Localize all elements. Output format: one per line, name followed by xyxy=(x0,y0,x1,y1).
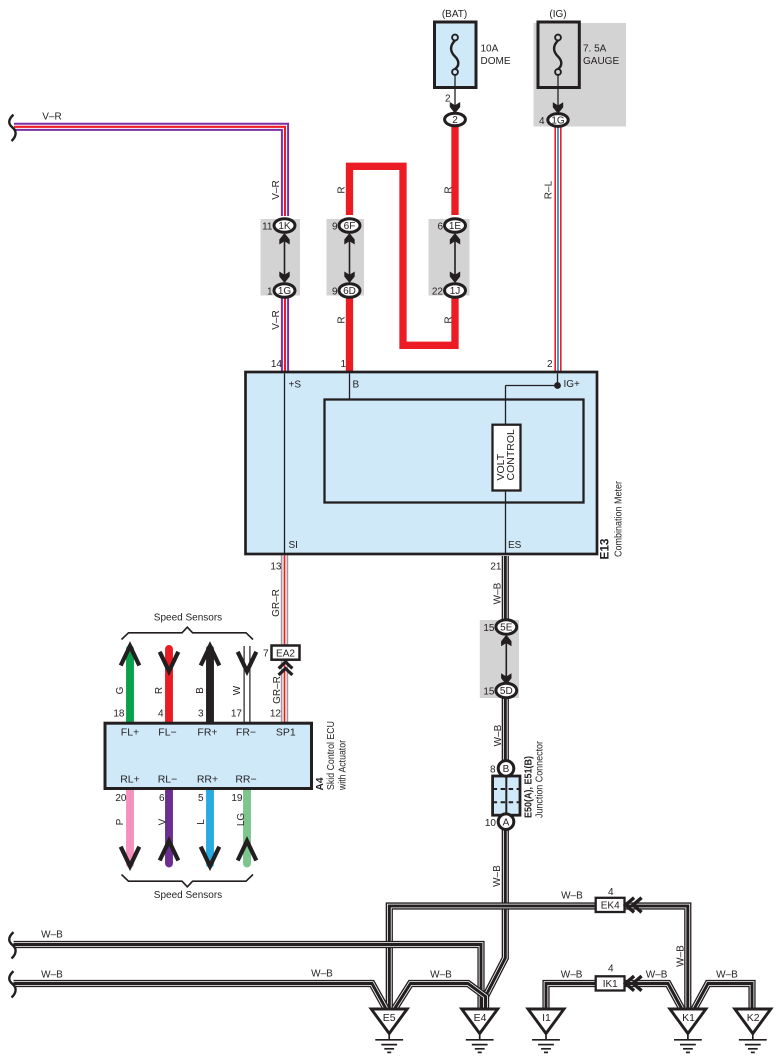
svg-text:4: 4 xyxy=(539,116,545,127)
svg-text:1J: 1J xyxy=(450,286,461,297)
svg-text:11: 11 xyxy=(262,222,273,233)
svg-text:17: 17 xyxy=(231,709,243,720)
svg-text:W: W xyxy=(232,685,243,695)
svg-text:E13: E13 xyxy=(600,539,612,560)
svg-text:18: 18 xyxy=(113,709,125,720)
svg-text:3: 3 xyxy=(198,709,204,720)
svg-text:SI: SI xyxy=(289,540,298,551)
svg-text:GR–R: GR–R xyxy=(272,676,283,704)
svg-text:1G: 1G xyxy=(278,286,292,297)
svg-text:R: R xyxy=(444,186,455,193)
svg-text:W–B: W–B xyxy=(561,969,583,980)
svg-text:13: 13 xyxy=(270,562,282,573)
svg-text:W–B: W–B xyxy=(311,969,333,980)
svg-text:Speed Sensors: Speed Sensors xyxy=(154,890,222,901)
svg-text:K2: K2 xyxy=(747,1012,760,1024)
svg-text:R: R xyxy=(337,316,348,323)
svg-text:W–B: W–B xyxy=(41,969,63,980)
svg-text:L: L xyxy=(196,819,207,825)
svg-text:4: 4 xyxy=(158,709,164,720)
svg-text:FR+: FR+ xyxy=(197,727,217,739)
svg-text:R: R xyxy=(154,687,165,694)
svg-text:W–B: W–B xyxy=(676,945,687,967)
svg-text:W–B: W–B xyxy=(716,969,738,980)
svg-text:E5: E5 xyxy=(383,1012,396,1024)
svg-text:Speed Sensors: Speed Sensors xyxy=(154,613,222,624)
svg-text:10A: 10A xyxy=(481,44,499,55)
svg-text:5: 5 xyxy=(198,793,204,804)
svg-text:P: P xyxy=(115,818,126,825)
svg-text:+S: +S xyxy=(289,380,302,391)
svg-text:9: 9 xyxy=(332,287,338,298)
svg-text:IG+: IG+ xyxy=(564,379,581,390)
svg-text:2: 2 xyxy=(452,115,458,126)
svg-text:V–R: V–R xyxy=(271,310,282,329)
svg-text:Junction Connector: Junction Connector xyxy=(535,740,546,818)
svg-text:SP1: SP1 xyxy=(276,727,296,739)
svg-text:7: 7 xyxy=(263,649,269,660)
svg-text:1: 1 xyxy=(340,359,346,370)
svg-text:7. 5A: 7. 5A xyxy=(583,44,607,55)
svg-text:(IG): (IG) xyxy=(549,9,566,20)
svg-text:R–L: R–L xyxy=(544,180,555,199)
svg-text:V–R: V–R xyxy=(271,180,282,199)
svg-text:DOME: DOME xyxy=(481,56,511,67)
svg-text:(BAT): (BAT) xyxy=(442,9,467,20)
svg-text:EK4: EK4 xyxy=(601,901,620,912)
svg-text:R: R xyxy=(444,316,455,323)
svg-text:V–R: V–R xyxy=(42,112,61,123)
svg-text:FL+: FL+ xyxy=(121,727,139,739)
svg-text:with Actuator: with Actuator xyxy=(338,739,349,790)
svg-text:ES: ES xyxy=(508,540,522,551)
svg-text:20: 20 xyxy=(115,793,127,804)
svg-text:GR–R: GR–R xyxy=(271,589,282,617)
svg-text:Skid Control ECU: Skid Control ECU xyxy=(326,721,337,790)
svg-text:FR−: FR− xyxy=(236,727,256,739)
svg-text:15: 15 xyxy=(483,687,495,698)
svg-text:1: 1 xyxy=(267,287,273,298)
svg-text:1G: 1G xyxy=(551,116,565,127)
svg-text:14: 14 xyxy=(271,359,283,370)
svg-text:RR−: RR− xyxy=(235,774,256,786)
svg-text:W–B: W–B xyxy=(41,930,63,941)
svg-text:A: A xyxy=(503,818,510,829)
svg-text:K1: K1 xyxy=(682,1012,695,1024)
svg-text:G: G xyxy=(115,686,126,694)
svg-text:W–B: W–B xyxy=(492,865,503,887)
svg-text:I1: I1 xyxy=(542,1012,551,1024)
svg-text:FL−: FL− xyxy=(158,727,176,739)
svg-text:4: 4 xyxy=(608,964,614,975)
svg-text:Combination Meter: Combination Meter xyxy=(614,480,625,557)
svg-text:8: 8 xyxy=(490,765,496,776)
svg-text:RL−: RL− xyxy=(158,774,178,786)
svg-text:4: 4 xyxy=(608,887,614,898)
svg-text:E50(A), E51(B): E50(A), E51(B) xyxy=(524,756,535,818)
svg-text:IK1: IK1 xyxy=(603,979,618,990)
svg-text:RR+: RR+ xyxy=(197,774,218,786)
svg-text:LG: LG xyxy=(236,813,247,827)
svg-text:W–B: W–B xyxy=(493,724,504,746)
svg-text:1K: 1K xyxy=(278,221,291,232)
svg-text:1E: 1E xyxy=(449,221,462,232)
svg-text:W–B: W–B xyxy=(493,582,504,604)
svg-text:2: 2 xyxy=(547,359,553,370)
svg-text:B: B xyxy=(195,687,206,694)
svg-text:6: 6 xyxy=(159,793,165,804)
svg-text:RL+: RL+ xyxy=(120,774,140,786)
svg-text:2: 2 xyxy=(445,94,451,105)
svg-text:B: B xyxy=(353,380,360,391)
svg-text:EA2: EA2 xyxy=(276,649,295,660)
svg-text:W–B: W–B xyxy=(430,969,452,980)
svg-text:9: 9 xyxy=(332,222,338,233)
svg-text:W–B: W–B xyxy=(646,969,668,980)
svg-text:GAUGE: GAUGE xyxy=(583,56,619,67)
svg-text:CONTROL: CONTROL xyxy=(505,429,517,480)
svg-text:W–B: W–B xyxy=(561,890,583,901)
svg-text:21: 21 xyxy=(490,562,502,573)
svg-text:6F: 6F xyxy=(344,221,356,232)
svg-text:19: 19 xyxy=(231,793,243,804)
svg-text:12: 12 xyxy=(270,709,282,720)
svg-text:6D: 6D xyxy=(343,286,356,297)
svg-text:B: B xyxy=(503,764,510,775)
svg-text:E4: E4 xyxy=(474,1012,487,1024)
svg-text:15: 15 xyxy=(483,623,495,634)
svg-text:5E: 5E xyxy=(500,623,513,634)
svg-text:R: R xyxy=(337,186,348,193)
svg-text:V: V xyxy=(158,818,169,825)
svg-text:22: 22 xyxy=(432,287,444,298)
svg-text:5D: 5D xyxy=(500,686,513,697)
svg-text:6: 6 xyxy=(437,222,443,233)
svg-text:10: 10 xyxy=(485,818,497,829)
svg-text:A4: A4 xyxy=(314,777,326,790)
